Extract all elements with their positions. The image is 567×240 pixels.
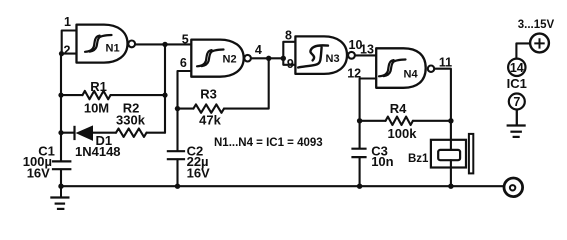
- svg-text:7: 7: [513, 95, 520, 109]
- svg-text:R3: R3: [200, 87, 217, 102]
- svg-text:1N4148: 1N4148: [75, 144, 121, 159]
- gate N3 body: [295, 36, 347, 74]
- IC1 pin 14 circle: [508, 59, 525, 76]
- capacitor C1: [52, 161, 72, 169]
- wire N1 output to N2 pin 5: [135, 43, 191, 45]
- ground (right, under IC1 pin 7): [507, 110, 526, 137]
- wire N3 input tie bar pins 8-9: [283, 42, 295, 65]
- capacitor C2: [167, 151, 185, 159]
- wire N4 pin 12 down to C3: [360, 79, 377, 187]
- IC1 pin 7 circle: [509, 94, 525, 110]
- power terminal + circle: [530, 34, 549, 53]
- svg-text:2: 2: [64, 44, 71, 58]
- buzzer Bz1: [431, 134, 473, 174]
- svg-text:14: 14: [510, 61, 524, 75]
- schmitt glyph N2: [197, 50, 224, 67]
- wire N1 input tie bar pins 1-2: [62, 31, 77, 54]
- wire bottom rail: [61, 185, 504, 187]
- wire N1 output vertical feedback: [164, 44, 166, 132]
- svg-text:16V: 16V: [27, 166, 50, 181]
- svg-text:N2: N2: [223, 54, 237, 66]
- capacitor C3: [351, 149, 366, 157]
- op-amp output bubble N1: [128, 41, 135, 48]
- schmitt glyph N3: [298, 45, 328, 67]
- svg-text:N1: N1: [106, 43, 120, 55]
- op-amp output bubble N2: [244, 55, 251, 62]
- svg-text:IC1: IC1: [507, 76, 527, 91]
- gate N1 body: [77, 25, 128, 63]
- wire R1 row: [61, 94, 165, 96]
- resistor R4: [386, 117, 413, 125]
- op-amp output bubble N4: [428, 66, 434, 72]
- svg-text:13: 13: [360, 42, 374, 56]
- wire N4 output pin 11 down to buzzer: [434, 69, 451, 187]
- svg-text:8: 8: [285, 29, 292, 43]
- svg-text:R4: R4: [390, 101, 407, 116]
- schmitt glyph N4: [379, 60, 406, 77]
- wire D1 R2 row: [61, 132, 165, 134]
- wire N2 pin 6 down to C2: [178, 71, 192, 186]
- gate N2 body: [191, 40, 243, 77]
- svg-text:10M: 10M: [84, 101, 109, 116]
- wire R3 row: [178, 58, 269, 108]
- resistor R1: [83, 91, 111, 99]
- resistor R3: [193, 104, 224, 112]
- svg-text:3...15V: 3...15V: [518, 19, 555, 31]
- op-amp output bubble N3: [348, 52, 355, 59]
- gate N4 body: [376, 48, 426, 88]
- svg-text:N4: N4: [404, 69, 419, 81]
- wire supply plus to pin 14: [516, 43, 531, 58]
- wire left vertical rail to C1: [60, 54, 62, 187]
- resistor R2: [116, 129, 147, 137]
- output terminal O: [504, 178, 523, 197]
- ground (left, under C1): [50, 186, 69, 209]
- node junction dots: [59, 51, 64, 56]
- svg-text:Bz1: Bz1: [408, 153, 429, 165]
- wire R4 row: [360, 120, 451, 122]
- svg-text:9: 9: [287, 57, 294, 71]
- svg-text:1: 1: [64, 15, 71, 29]
- svg-text:10n: 10n: [371, 154, 393, 169]
- svg-text:12: 12: [347, 67, 361, 81]
- wire pin 7 to ground: [516, 110, 518, 125]
- svg-text:N1...N4 = IC1 = 4093: N1...N4 = IC1 = 4093: [214, 137, 323, 149]
- svg-text:4: 4: [255, 43, 262, 57]
- svg-text:330k: 330k: [116, 113, 146, 128]
- svg-text:16V: 16V: [187, 166, 210, 181]
- wire N3 output to N4 pin 13: [355, 54, 376, 56]
- wire N2 output to N3 input: [251, 57, 283, 59]
- svg-text:N3: N3: [326, 53, 340, 65]
- svg-text:100k: 100k: [388, 126, 418, 141]
- svg-text:6: 6: [180, 56, 187, 70]
- svg-text:5: 5: [182, 33, 189, 47]
- svg-text:R1: R1: [90, 79, 107, 94]
- diode D1: [75, 125, 94, 140]
- schmitt glyph N1: [85, 35, 112, 52]
- svg-text:11: 11: [439, 55, 452, 69]
- svg-text:47k: 47k: [199, 113, 221, 128]
